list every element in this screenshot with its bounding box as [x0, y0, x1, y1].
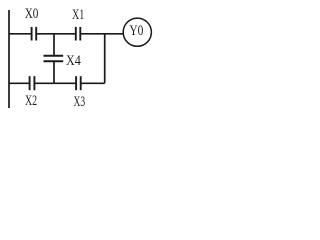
svg-text:Y0: Y0 — [129, 23, 143, 39]
wire X4 down to bottom rung — [53, 61, 55, 83]
wire right riser joining bottom rung to top rung — [104, 34, 106, 84]
wire rail to contact X0 — [9, 33, 32, 35]
wire X3 to right corner — [81, 82, 105, 84]
contact X2 — [30, 76, 35, 90]
svg-text:X4: X4 — [66, 53, 81, 69]
wire rail to contact X2 — [9, 82, 30, 84]
svg-text:X0: X0 — [25, 6, 39, 22]
wire X0 to contact X1 through branch node — [36, 33, 76, 35]
left power rail — [8, 10, 10, 108]
wire branch down from top rung to contact X4 — [53, 34, 55, 56]
contact X3 — [76, 76, 81, 90]
contact X0 — [32, 27, 37, 41]
contact X1 — [76, 27, 81, 41]
coil Y0 circle — [123, 18, 151, 46]
svg-text:X2: X2 — [25, 93, 37, 109]
svg-text:X1: X1 — [72, 7, 84, 23]
contact X4 — [44, 56, 64, 62]
wire X2 to contact X3 through branch node — [34, 82, 76, 84]
wire contact X1 to coil Y0 — [80, 33, 123, 35]
svg-text:X3: X3 — [74, 94, 86, 110]
